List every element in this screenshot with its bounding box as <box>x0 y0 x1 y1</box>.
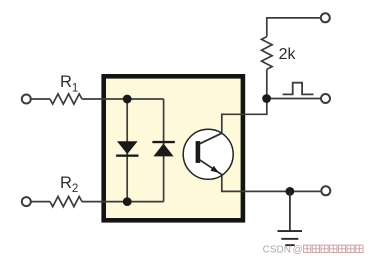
node C junction <box>262 94 271 103</box>
node A junction <box>123 95 132 104</box>
wire top supply rail <box>267 18 321 37</box>
diode D1 <box>116 141 138 157</box>
node B junction <box>123 197 132 206</box>
pulse symbol <box>283 83 314 95</box>
wire right diode branch <box>163 99 165 202</box>
wire node A top rail <box>82 98 164 100</box>
wire emitter to node D <box>222 174 321 192</box>
resistor 2k <box>262 37 273 70</box>
optocoupler U1 body <box>104 76 243 220</box>
watermark faux CJK glyphs <box>304 245 363 252</box>
terminal T3 <box>321 13 330 22</box>
terminal T4 <box>321 94 330 103</box>
wire bottom rail <box>127 201 163 203</box>
resistor R1 <box>50 94 82 104</box>
wire 2k to node C <box>266 69 268 98</box>
node D junction <box>286 187 295 196</box>
terminal T2 <box>22 197 31 206</box>
wire R1 rail to node A <box>31 98 50 100</box>
wire left diode branch <box>126 99 128 202</box>
diode D2 <box>152 141 174 157</box>
resistor R2 <box>50 197 82 207</box>
svg-text:2k: 2k <box>279 46 297 63</box>
wire collector to node C <box>222 99 267 136</box>
transistor Q1 <box>183 129 233 179</box>
wire R2 to node B <box>82 201 127 203</box>
wire R2 rail to node B <box>31 201 50 203</box>
svg-text:@: @ <box>293 244 303 255</box>
svg-text:CSDN: CSDN <box>263 244 291 255</box>
wire node C to output terminal <box>267 98 320 100</box>
ground <box>278 191 303 246</box>
terminal T5 <box>321 186 330 195</box>
terminal T1 <box>22 95 31 104</box>
